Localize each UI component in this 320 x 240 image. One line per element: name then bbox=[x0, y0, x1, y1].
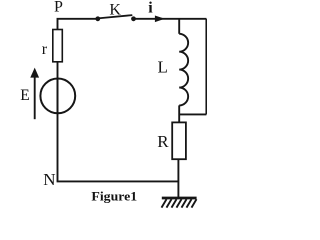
ground bar bbox=[162, 197, 197, 200]
switch K right contact dot bbox=[131, 16, 136, 21]
svg-text:N: N bbox=[43, 170, 55, 189]
wire through source down to N corner bbox=[57, 79, 59, 182]
resistor R bbox=[172, 122, 186, 159]
E arrow shaft bbox=[34, 76, 36, 119]
wire top from switch to right corner bbox=[134, 18, 207, 20]
svg-text:i: i bbox=[148, 0, 153, 17]
E arrow head bbox=[30, 68, 39, 78]
wire junction branch y=114 bbox=[179, 113, 206, 115]
inductor L coil arcs bbox=[179, 34, 188, 106]
wire bottom horizontal N to R branch bbox=[57, 180, 179, 182]
resistor r bbox=[53, 30, 63, 62]
wire coil top connection bbox=[178, 19, 180, 34]
svg-text:E: E bbox=[20, 87, 29, 104]
svg-text:R: R bbox=[157, 132, 169, 151]
wire source through-line inside circle bbox=[57, 79, 59, 114]
ground hatching bbox=[162, 199, 197, 207]
wire right vertical bbox=[205, 19, 207, 115]
current arrow i head bbox=[155, 16, 165, 23]
switch K blade bbox=[98, 15, 133, 18]
svg-text:P: P bbox=[54, 0, 63, 16]
source E circle bbox=[40, 79, 75, 114]
switch K left contact dot bbox=[95, 16, 100, 21]
wire R bottom to ground bbox=[177, 160, 179, 197]
wire coil bottom to junction bbox=[178, 105, 180, 121]
wire top-left vertical (P corner to r) bbox=[58, 19, 98, 29]
svg-text:K: K bbox=[109, 1, 121, 18]
svg-text:r: r bbox=[42, 41, 48, 58]
wire r bottom to source circle bbox=[57, 62, 59, 78]
svg-text:Figure1: Figure1 bbox=[91, 189, 137, 204]
svg-text:L: L bbox=[158, 58, 168, 77]
